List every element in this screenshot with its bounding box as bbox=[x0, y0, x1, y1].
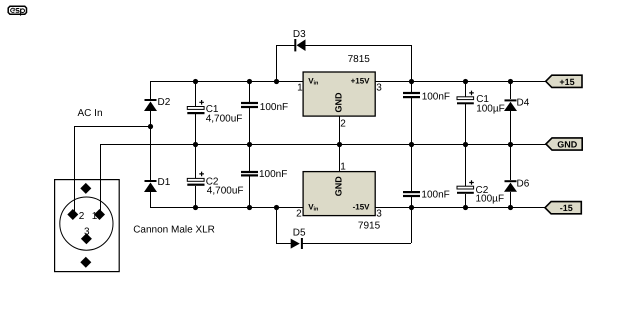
XLR shell circle bbox=[60, 197, 113, 250]
XLR pin 2 bbox=[67, 209, 78, 220]
node dots top output rail bbox=[409, 79, 414, 84]
wire AC hot from XLR pin2 up bbox=[74, 126, 75, 211]
XLR mounting hole top bbox=[80, 183, 91, 194]
capacitor C2 4700uF bbox=[187, 172, 204, 186]
wire output 100nF column bbox=[411, 81, 412, 92]
node dots GND rail bbox=[193, 142, 198, 147]
svg-text:GND: GND bbox=[334, 176, 344, 197]
capacitor C2 100uF bbox=[457, 180, 474, 194]
svg-text:100µF: 100µF bbox=[476, 104, 505, 115]
svg-text:GND: GND bbox=[557, 140, 578, 150]
capacitor C1 100uF bbox=[457, 91, 474, 105]
svg-text:+15: +15 bbox=[559, 77, 574, 87]
node dots top input rail bbox=[193, 79, 198, 84]
svg-text:3: 3 bbox=[376, 83, 382, 94]
svg-text:100nF: 100nF bbox=[259, 169, 287, 180]
svg-text:7815: 7815 bbox=[348, 54, 371, 65]
capacitor 100nF input top bbox=[241, 102, 258, 108]
svg-text:GND: GND bbox=[334, 92, 344, 113]
wire AC hot horizontal to rectifier node bbox=[74, 126, 151, 127]
op-amp U1 7815 regulator bbox=[303, 72, 375, 116]
ESP logo bbox=[8, 6, 26, 15]
capacitor 100nF output top bbox=[403, 92, 420, 98]
diode D5 bbox=[291, 238, 303, 249]
wire D3 branch bbox=[276, 45, 277, 81]
capacitor C1 4700uF bbox=[187, 100, 204, 114]
diode D4 bbox=[504, 99, 517, 111]
wire big cap column bbox=[195, 81, 196, 107]
svg-text:D3: D3 bbox=[293, 29, 306, 40]
diode D6 bbox=[504, 180, 517, 192]
svg-text:D2: D2 bbox=[158, 97, 171, 108]
XLR pin 1 bbox=[94, 209, 105, 220]
node AC junction bbox=[148, 124, 153, 129]
svg-text:-15: -15 bbox=[560, 203, 573, 213]
svg-text:2: 2 bbox=[296, 209, 302, 220]
svg-text:Cannon Male XLR: Cannon Male XLR bbox=[133, 225, 215, 236]
svg-text:1: 1 bbox=[92, 211, 98, 222]
svg-text:AC In: AC In bbox=[78, 108, 103, 119]
svg-text:100nF: 100nF bbox=[422, 92, 450, 103]
svg-text:100nF: 100nF bbox=[421, 190, 449, 201]
capacitor 100nF output bottom bbox=[403, 191, 420, 197]
XLR pin 3 bbox=[81, 233, 92, 244]
node dots bottom rail bbox=[193, 205, 198, 210]
wire top input rail bbox=[150, 81, 303, 82]
wire top output rail bbox=[375, 81, 546, 82]
svg-text:2: 2 bbox=[340, 119, 346, 130]
tag +15 bbox=[546, 75, 582, 87]
wire input 100nF column top bbox=[249, 81, 250, 102]
wire regulators GND column bbox=[339, 116, 340, 172]
wire rectifier column bbox=[150, 81, 151, 99]
svg-text:D4: D4 bbox=[517, 98, 530, 109]
capacitor 100nF input bottom bbox=[241, 171, 258, 177]
svg-text:3: 3 bbox=[84, 227, 90, 238]
svg-text:D1: D1 bbox=[158, 177, 171, 188]
wire bottom output rail bbox=[375, 207, 545, 208]
op-amp U2 7915 regulator bbox=[303, 172, 375, 216]
svg-text:D5: D5 bbox=[293, 228, 306, 239]
svg-text:4,700uF: 4,700uF bbox=[207, 186, 244, 197]
svg-text:1: 1 bbox=[297, 83, 303, 94]
wire D5 branch bbox=[276, 207, 277, 243]
tag GND bbox=[546, 138, 582, 150]
svg-text:2: 2 bbox=[79, 211, 85, 222]
diode D1 bbox=[144, 180, 157, 192]
diode D3 bbox=[294, 39, 305, 51]
wire bottom input rail bbox=[150, 207, 303, 208]
wire AC neutral from XLR pin1 up bbox=[100, 144, 101, 211]
svg-text:100µF: 100µF bbox=[476, 194, 505, 205]
diode D2 bbox=[144, 99, 157, 111]
wire D4 D6 column bbox=[510, 81, 511, 99]
svg-text:D6: D6 bbox=[517, 179, 530, 190]
svg-text:-15V: -15V bbox=[353, 202, 371, 211]
XLR connector body bbox=[55, 180, 120, 272]
svg-text:1: 1 bbox=[340, 162, 346, 173]
svg-text:+15V: +15V bbox=[351, 77, 371, 86]
wire output 100uF column bbox=[465, 81, 466, 97]
svg-text:3: 3 bbox=[376, 209, 382, 220]
XLR mounting hole bottom bbox=[80, 257, 91, 268]
svg-text:7915: 7915 bbox=[358, 221, 381, 232]
tag -15 bbox=[545, 202, 581, 214]
wire GND rail bbox=[100, 144, 546, 145]
svg-text:4,700uF: 4,700uF bbox=[206, 114, 243, 125]
svg-text:100nF: 100nF bbox=[260, 102, 288, 113]
